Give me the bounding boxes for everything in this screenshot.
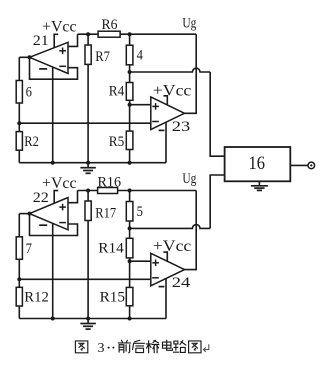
wire Ug output line bbox=[185, 34, 197, 113]
wire divider branch op-amp 21 bbox=[52, 66, 54, 162]
resistor R15 bbox=[126, 287, 133, 305]
op-amp 24 feedback - mark bbox=[159, 286, 165, 288]
resistor R5 bbox=[126, 131, 133, 149]
resistor 7 bbox=[16, 237, 22, 259]
svg-text:R5: R5 bbox=[109, 134, 125, 150]
label R6 bbox=[102, 17, 118, 33]
wire bottom rail bbox=[19, 162, 166, 164]
wire feedback loop op-amp 22 bbox=[30, 214, 78, 236]
svg-text:5: 5 bbox=[137, 204, 143, 220]
wire middle column bbox=[129, 34, 131, 163]
caption char qiao bbox=[146, 340, 159, 353]
wire block 16 output bbox=[290, 164, 308, 166]
node bridge output tap bbox=[128, 70, 132, 74]
resistor R7 bbox=[85, 45, 91, 64]
label 7 bbox=[26, 241, 33, 257]
op-amp 24 bbox=[151, 253, 185, 285]
label 5 bbox=[137, 204, 143, 220]
op-amp 22 - mark bbox=[59, 222, 66, 224]
svg-text:24: 24 bbox=[172, 275, 191, 291]
label R4 bbox=[109, 84, 125, 100]
node divider-rail bbox=[51, 317, 55, 321]
node R16-5 bbox=[128, 189, 132, 193]
label +Vcc op-amp 23 bbox=[153, 82, 192, 99]
node bridge output tap bbox=[128, 226, 132, 230]
wire non-inverting input op-amp 23 bbox=[130, 104, 151, 106]
svg-text:Ug: Ug bbox=[182, 16, 196, 32]
op-amp 23 bbox=[151, 97, 185, 130]
label 21 bbox=[33, 33, 49, 49]
label R16 bbox=[98, 174, 122, 190]
wire bridge output to block 16 bbox=[130, 175, 225, 228]
op-amp 24 - mark bbox=[152, 277, 159, 279]
wire op-amp 22 output to left rail bbox=[19, 213, 29, 215]
label +Vcc op-amp 21 bbox=[42, 19, 77, 36]
op-amp 21 feedback - mark bbox=[39, 68, 47, 70]
wire non-inverting step op-amp 21 bbox=[68, 34, 78, 46]
label 6 bbox=[26, 85, 33, 101]
caption char dian bbox=[162, 340, 172, 350]
svg-text:R6: R6 bbox=[102, 17, 118, 33]
output terminal bbox=[308, 162, 315, 169]
label R2 bbox=[24, 134, 39, 150]
label R5 bbox=[109, 134, 125, 150]
op-amp 22 + mark bbox=[59, 204, 66, 211]
svg-text:21: 21 bbox=[33, 33, 49, 49]
node column-rail bbox=[128, 317, 132, 321]
svg-text:7: 7 bbox=[26, 241, 33, 257]
svg-text:6: 6 bbox=[26, 85, 33, 101]
wire non-inverting step op-amp 22 bbox=[68, 191, 78, 203]
wire middle column bbox=[129, 191, 131, 319]
node op-amp 24 input tap bbox=[128, 259, 132, 263]
wire non-inverting input op-amp 24 bbox=[130, 260, 151, 262]
node R6-4 bbox=[128, 32, 132, 36]
caption char tu(2) bbox=[189, 341, 201, 353]
label 4 bbox=[137, 48, 144, 64]
resistor R6 bbox=[98, 31, 120, 37]
node left bridge tap bbox=[17, 277, 21, 281]
op-amp 22 feedback - mark bbox=[39, 224, 47, 226]
resistor 6 bbox=[16, 81, 22, 104]
label R14 bbox=[98, 241, 124, 257]
label 23 bbox=[172, 119, 191, 135]
svg-text:R17: R17 bbox=[95, 205, 116, 221]
op-amp 24 + mark bbox=[152, 260, 159, 267]
label 16 bbox=[249, 153, 266, 174]
svg-text:Ug: Ug bbox=[182, 171, 196, 187]
label R7 bbox=[95, 49, 110, 65]
node R6-R7 bbox=[86, 32, 90, 36]
label R12 bbox=[24, 290, 49, 306]
node op-amp 23 input tap bbox=[128, 103, 132, 107]
label R17 bbox=[95, 205, 116, 221]
caption char hou bbox=[133, 340, 145, 352]
wire divider branch op-amp 23 bbox=[165, 122, 167, 163]
resistor R12 bbox=[16, 287, 22, 306]
wire top row R16 bbox=[78, 190, 197, 192]
op-amp 21 + mark bbox=[59, 48, 66, 55]
svg-text:R15: R15 bbox=[100, 290, 126, 306]
svg-text:3: 3 bbox=[98, 341, 105, 356]
wire left rail bbox=[18, 57, 20, 162]
resistor R4 bbox=[126, 83, 133, 101]
caption char 3 bbox=[98, 341, 105, 356]
svg-text:R16: R16 bbox=[98, 174, 122, 190]
op-amp 23 feedback - mark bbox=[159, 129, 165, 131]
label 24 bbox=[172, 275, 191, 291]
svg-text:23: 23 bbox=[172, 119, 191, 135]
op-amp 23 - mark bbox=[152, 121, 159, 123]
op-amp 23 + mark bbox=[152, 103, 159, 110]
ground under block 16 bbox=[251, 181, 268, 190]
wire left rail bbox=[18, 214, 20, 319]
wire inverting bus to op-amp 24 bbox=[19, 278, 151, 280]
label Ug bbox=[182, 16, 196, 32]
label 22 bbox=[33, 190, 49, 206]
wire op-amp 21 output to left rail bbox=[19, 56, 29, 58]
block 16 box bbox=[225, 147, 291, 181]
resistor 4 bbox=[126, 45, 133, 65]
caption char lu bbox=[173, 341, 185, 353]
resistor R16 bbox=[98, 188, 118, 194]
op-amp 21 bbox=[30, 42, 69, 73]
wire column R17 bbox=[87, 191, 89, 319]
node column-rail bbox=[128, 161, 132, 165]
wire divider branch op-amp 22 bbox=[52, 223, 54, 319]
svg-text:16: 16 bbox=[249, 153, 266, 174]
caption char tu(1) bbox=[75, 341, 87, 353]
svg-text:R14: R14 bbox=[98, 241, 124, 257]
label Ug bbox=[182, 171, 196, 187]
wire feedback loop op-amp 21 bbox=[30, 57, 78, 79]
svg-text:R2: R2 bbox=[24, 134, 39, 150]
op-amp 22 Vcc pin bbox=[54, 191, 58, 204]
svg-text:R7: R7 bbox=[95, 49, 110, 65]
ground symbol bbox=[80, 319, 96, 330]
node divider-rail bbox=[51, 161, 55, 165]
op-amp 22 bbox=[30, 198, 69, 230]
op-amp 23 Vcc pin bbox=[163, 96, 167, 105]
op-amp 21 Vcc pin bbox=[54, 34, 58, 48]
svg-text:R12: R12 bbox=[24, 290, 49, 306]
label +Vcc op-amp 24 bbox=[153, 238, 192, 255]
resistor R17 bbox=[85, 201, 91, 221]
label +Vcc op-amp 22 bbox=[42, 175, 77, 192]
op-amp 24 Vcc pin bbox=[163, 252, 167, 261]
node ground-rail bbox=[86, 161, 90, 165]
resistor 5 bbox=[126, 202, 133, 222]
node R16-R17 bbox=[86, 189, 90, 193]
node op-amp 22 output bbox=[28, 212, 32, 216]
caption middle dots bbox=[108, 347, 115, 349]
node op-amp 21 output bbox=[28, 55, 32, 59]
wire top row R6 bbox=[78, 33, 197, 35]
node left bridge tap bbox=[17, 121, 21, 125]
wire Ug output line bbox=[185, 191, 197, 270]
svg-text:R4: R4 bbox=[109, 84, 125, 100]
svg-text:4: 4 bbox=[137, 48, 144, 64]
wire inverting bus to op-amp 23 bbox=[19, 122, 151, 124]
label R15 bbox=[100, 290, 126, 306]
wire divider branch op-amp 24 bbox=[165, 278, 167, 318]
svg-text:+Vcc: +Vcc bbox=[153, 238, 192, 255]
node ground-rail bbox=[86, 317, 90, 321]
svg-text:22: 22 bbox=[33, 190, 49, 206]
resistor R14 bbox=[126, 238, 133, 258]
wire bridge output to block 16 bbox=[130, 68, 225, 156]
op-amp 21 - mark bbox=[59, 65, 66, 67]
resistor R2 bbox=[16, 132, 22, 151]
svg-text:+Vcc: +Vcc bbox=[153, 82, 192, 99]
caption char qian bbox=[118, 340, 130, 353]
paragraph return mark bbox=[203, 344, 208, 352]
wire column R7 bbox=[87, 34, 89, 163]
wire bottom rail bbox=[19, 318, 166, 320]
ground symbol bbox=[80, 163, 96, 174]
